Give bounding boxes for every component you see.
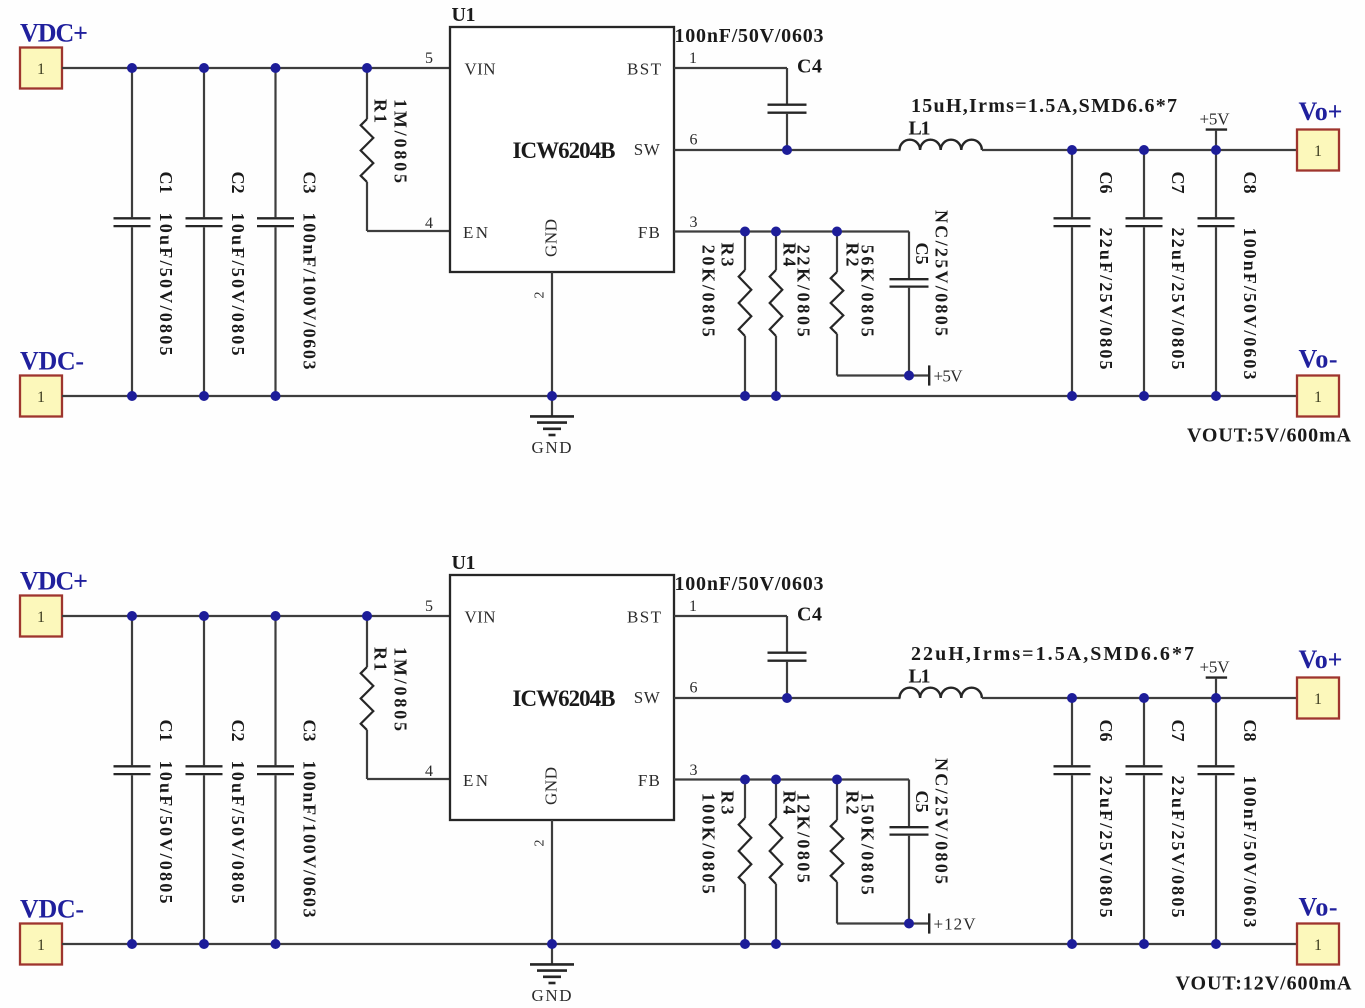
svg-text:C7: C7 — [1168, 172, 1188, 194]
svg-text:C1: C1 — [156, 172, 176, 194]
junction — [740, 391, 750, 401]
capacitor C5 — [890, 780, 929, 924]
junction — [362, 63, 372, 73]
resistor R4 — [770, 780, 783, 945]
svg-text:6: 6 — [690, 132, 698, 149]
power +5V — [909, 365, 963, 385]
svg-text:100nF/50V/0603: 100nF/50V/0603 — [1240, 228, 1260, 380]
svg-text:C5: C5 — [912, 243, 932, 265]
svg-text:VDC+: VDC+ — [20, 567, 88, 596]
power +5V at output — [1200, 110, 1231, 151]
svg-text:FB: FB — [638, 771, 660, 790]
junction — [127, 391, 137, 401]
power +5V at output — [1200, 658, 1231, 699]
wire GND rail — [62, 395, 1297, 397]
capacitor C7 — [1126, 150, 1163, 396]
junction — [199, 63, 209, 73]
junction — [127, 939, 137, 949]
junction — [1139, 693, 1149, 703]
inductor L1 — [900, 688, 982, 698]
svg-text:C2: C2 — [228, 172, 248, 194]
resistor R3 — [739, 232, 752, 397]
port VDC+ (12V) — [20, 596, 62, 637]
svg-text:2: 2 — [533, 292, 548, 299]
capacitor C1 — [114, 68, 151, 396]
junction — [547, 939, 557, 949]
ground — [530, 272, 574, 457]
svg-text:SW: SW — [634, 688, 661, 707]
junction — [271, 63, 281, 73]
wire VIN rail — [62, 615, 450, 617]
svg-text:1: 1 — [1314, 691, 1322, 708]
port Vo+ (5V) — [1297, 130, 1339, 171]
svg-text:C6: C6 — [1096, 720, 1116, 742]
junction — [1139, 145, 1149, 155]
svg-text:100nF/50V/0603: 100nF/50V/0603 — [675, 573, 824, 595]
svg-text:3: 3 — [690, 762, 698, 779]
svg-text:GND: GND — [532, 438, 572, 457]
svg-text:1M/0805: 1M/0805 — [391, 647, 411, 731]
junction C5/power — [904, 919, 914, 929]
svg-text:100nF/50V/0603: 100nF/50V/0603 — [1240, 776, 1260, 928]
junction — [127, 63, 137, 73]
svg-text:1: 1 — [689, 50, 697, 67]
junction — [1211, 693, 1221, 703]
svg-text:100K/0805: 100K/0805 — [699, 793, 719, 894]
op-amp U1 ICW6204B (5V) — [450, 27, 674, 272]
svg-text:Vo+: Vo+ — [1299, 645, 1343, 674]
ground — [530, 820, 574, 1005]
svg-text:C3: C3 — [300, 720, 320, 742]
wire GND rail — [62, 943, 1297, 945]
junction — [1067, 145, 1077, 155]
wire EN — [367, 230, 450, 232]
svg-text:L1: L1 — [909, 118, 931, 140]
svg-text:+5V: +5V — [934, 367, 964, 386]
port Vo- (12V) — [1297, 924, 1339, 965]
junction — [1139, 391, 1149, 401]
svg-text:C1: C1 — [156, 720, 176, 742]
svg-text:VDC+: VDC+ — [20, 19, 88, 48]
svg-text:1M/0805: 1M/0805 — [391, 99, 411, 183]
svg-text:NC/25V/0805: NC/25V/0805 — [932, 210, 952, 336]
junction — [1211, 939, 1221, 949]
wire SW — [674, 697, 901, 699]
junction FB/R3 — [740, 227, 750, 237]
port Vo+ (12V) — [1297, 678, 1339, 719]
wire R2 to power — [837, 374, 909, 376]
capacitor C4 — [768, 68, 807, 150]
junction — [740, 939, 750, 949]
wire BST — [674, 615, 787, 617]
junction — [1067, 693, 1077, 703]
capacitor C8 — [1198, 698, 1235, 944]
svg-text:Vo-: Vo- — [1299, 893, 1338, 922]
junction — [1067, 391, 1077, 401]
svg-text:R1: R1 — [371, 99, 391, 123]
junction FB/R4 — [771, 227, 781, 237]
svg-text:150K/0805: 150K/0805 — [858, 793, 878, 895]
svg-text:EN: EN — [463, 223, 488, 242]
capacitor C7 — [1126, 698, 1163, 944]
capacitor C2 — [186, 616, 223, 944]
junction — [271, 939, 281, 949]
svg-text:C7: C7 — [1168, 720, 1188, 742]
svg-text:1: 1 — [1314, 937, 1322, 954]
svg-text:+5V: +5V — [1200, 110, 1231, 129]
svg-text:R3: R3 — [718, 791, 738, 815]
svg-text:GND: GND — [542, 219, 561, 257]
svg-text:C3: C3 — [300, 172, 320, 194]
port VDC+ (5V) — [20, 48, 62, 89]
svg-text:5: 5 — [425, 50, 433, 67]
svg-text:1: 1 — [37, 609, 45, 626]
wire SW to output — [982, 149, 1297, 151]
power +12V — [909, 913, 976, 933]
capacitor C8 — [1198, 150, 1235, 396]
svg-text:R1: R1 — [371, 647, 391, 671]
resistor R1 — [361, 68, 374, 231]
wire FB — [674, 230, 909, 232]
inductor L1 — [900, 140, 982, 150]
wire VIN rail — [62, 67, 450, 69]
junction — [1067, 939, 1077, 949]
junction — [771, 939, 781, 949]
svg-text:SW: SW — [634, 140, 661, 159]
capacitor C1 — [114, 616, 151, 944]
capacitor C6 — [1054, 150, 1091, 396]
wire SW to output — [982, 697, 1297, 699]
junction — [1211, 145, 1221, 155]
junction FB/R4 — [771, 775, 781, 785]
svg-text:1: 1 — [37, 389, 45, 406]
svg-text:VDC-: VDC- — [20, 895, 84, 924]
svg-text:ICW6204B: ICW6204B — [513, 138, 616, 163]
svg-text:4: 4 — [425, 763, 433, 780]
wire BST — [674, 67, 787, 69]
svg-text:Vo-: Vo- — [1299, 345, 1338, 374]
junction FB/R2 — [832, 775, 842, 785]
svg-text:C2: C2 — [228, 720, 248, 742]
svg-text:Vo+: Vo+ — [1299, 97, 1343, 126]
resistor R4 — [770, 232, 783, 397]
resistor R1 — [361, 616, 374, 779]
svg-text:3: 3 — [690, 214, 698, 231]
junction — [271, 391, 281, 401]
junction — [362, 611, 372, 621]
junction — [771, 391, 781, 401]
svg-text:1: 1 — [37, 937, 45, 954]
svg-text:C6: C6 — [1096, 172, 1116, 194]
svg-text:1: 1 — [37, 61, 45, 78]
svg-text:R3: R3 — [718, 243, 738, 267]
junction — [199, 939, 209, 949]
svg-text:C4: C4 — [797, 56, 822, 78]
junction — [199, 391, 209, 401]
svg-text:4: 4 — [425, 215, 433, 232]
capacitor C5 — [890, 232, 929, 376]
wire R2 to power — [837, 922, 909, 924]
svg-text:+5V: +5V — [1200, 658, 1231, 677]
junction — [547, 391, 557, 401]
svg-text:100nF/100V/0603: 100nF/100V/0603 — [300, 213, 320, 370]
junction SW/C4 — [782, 145, 792, 155]
wire FB — [674, 778, 909, 780]
junction FB/R3 — [740, 775, 750, 785]
svg-text:GND: GND — [532, 986, 572, 1005]
junction — [1139, 939, 1149, 949]
svg-text:1: 1 — [1314, 389, 1322, 406]
svg-text:1: 1 — [689, 598, 697, 615]
svg-text:VIN: VIN — [465, 607, 496, 626]
capacitor C6 — [1054, 698, 1091, 944]
resistor R2 — [831, 780, 844, 924]
capacitor C4 — [768, 616, 807, 698]
svg-text:C8: C8 — [1240, 720, 1260, 742]
svg-text:2: 2 — [533, 840, 548, 847]
junction — [199, 611, 209, 621]
svg-text:VOUT:5V/600mA: VOUT:5V/600mA — [1187, 425, 1352, 447]
svg-text:100nF/100V/0603: 100nF/100V/0603 — [300, 761, 320, 918]
svg-text:BST: BST — [627, 59, 662, 78]
junction — [1211, 391, 1221, 401]
svg-text:VDC-: VDC- — [20, 347, 84, 376]
junction C5/power — [904, 371, 914, 381]
resistor R2 — [831, 232, 844, 376]
svg-text:C8: C8 — [1240, 172, 1260, 194]
svg-text:C5: C5 — [912, 791, 932, 813]
svg-text:+12V: +12V — [934, 915, 977, 934]
svg-text:VIN: VIN — [465, 59, 496, 78]
svg-text:1: 1 — [1314, 143, 1322, 160]
junction SW/C4 — [782, 693, 792, 703]
svg-text:VOUT:12V/600mA: VOUT:12V/600mA — [1176, 973, 1353, 995]
junction — [271, 611, 281, 621]
capacitor C2 — [186, 68, 223, 396]
junction FB/R2 — [832, 227, 842, 237]
svg-text:BST: BST — [627, 607, 662, 626]
wire SW — [674, 149, 901, 151]
svg-text:100nF/50V/0603: 100nF/50V/0603 — [675, 25, 824, 47]
port VDC- (5V) — [20, 376, 62, 417]
svg-text:ICW6204B: ICW6204B — [513, 686, 616, 711]
svg-text:U1: U1 — [452, 4, 476, 26]
resistor R3 — [739, 780, 752, 945]
svg-text:6: 6 — [690, 680, 698, 697]
svg-text:5: 5 — [425, 598, 433, 615]
capacitor C3 — [257, 616, 294, 944]
svg-text:EN: EN — [463, 771, 488, 790]
svg-text:C4: C4 — [797, 604, 822, 626]
port Vo- (5V) — [1297, 376, 1339, 417]
svg-text:L1: L1 — [909, 666, 931, 688]
port VDC- (12V) — [20, 924, 62, 965]
op-amp U1 ICW6204B (12V) — [450, 575, 674, 820]
svg-text:NC/25V/0805: NC/25V/0805 — [932, 758, 952, 884]
junction — [127, 611, 137, 621]
svg-text:FB: FB — [638, 223, 660, 242]
wire EN — [367, 778, 450, 780]
capacitor C3 — [257, 68, 294, 396]
svg-text:U1: U1 — [452, 552, 476, 574]
svg-text:GND: GND — [542, 767, 561, 805]
